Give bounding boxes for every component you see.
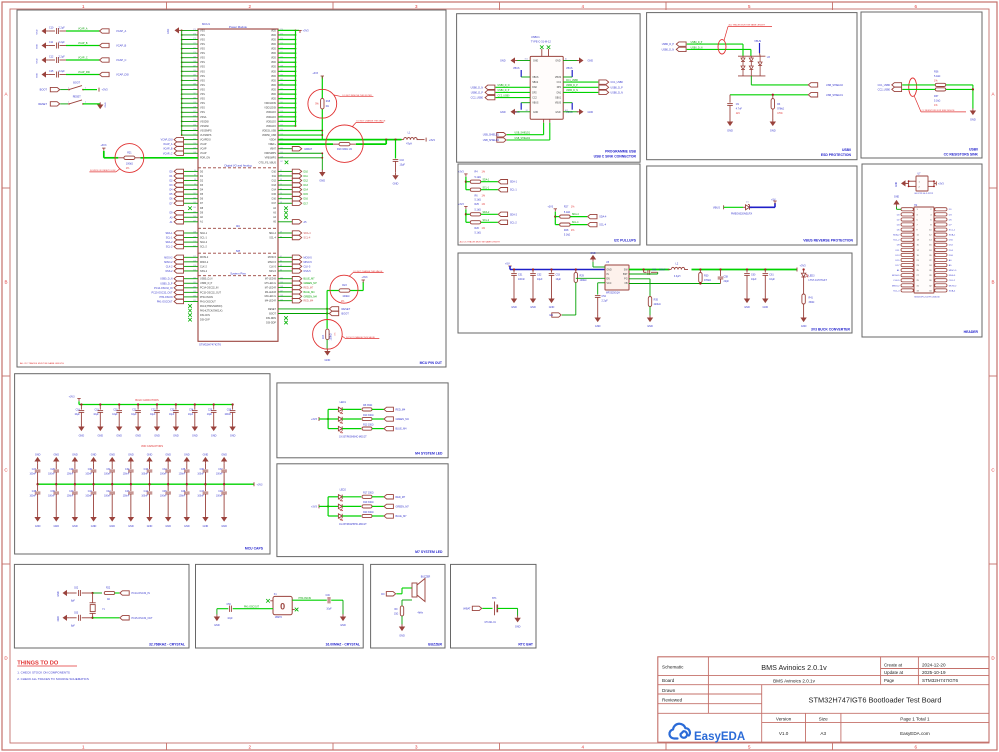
section box USB0 CC RESISTORS SINK [861, 12, 982, 158]
svg-text:VDD: VDD [271, 38, 276, 41]
svg-text:USB_SHIELD1: USB_SHIELD1 [515, 133, 531, 135]
svg-text:BOOT: BOOT [269, 312, 276, 315]
svg-text:VBAT: VBAT [270, 148, 277, 151]
svg-text:GND: GND [165, 525, 171, 528]
svg-text:GND: GND [37, 73, 39, 78]
svg-text:SCL-2: SCL-2 [200, 246, 207, 249]
svg-text:5.1kΩ: 5.1kΩ [564, 234, 571, 237]
svg-text:Drawn: Drawn [662, 688, 676, 693]
section box RTC BAT [451, 564, 537, 648]
svg-text:BLUE_M7: BLUE_M7 [304, 278, 316, 281]
svg-text:System Pins: System Pins [230, 272, 246, 276]
svg-text:VDDLDO: VDDLDO [266, 120, 276, 123]
svg-text:GND: GND [109, 525, 115, 528]
wire PH1-OSCOUT [233, 608, 273, 610]
svg-text:Create at: Create at [884, 663, 903, 668]
svg-text:VBUS REVERSE PROTECTION: VBUS REVERSE PROTECTION [803, 239, 853, 243]
svg-text:+5V: +5V [771, 198, 776, 201]
svg-text:VSS: VSS [200, 93, 205, 96]
resistor R3 976k with GND [772, 95, 774, 99]
svg-text:CC1_USB0: CC1_USB0 [611, 81, 624, 84]
wire VBAT [278, 148, 292, 150]
section box 32k crystal [14, 564, 189, 648]
svg-text:VDD50_USB: VDD50_USB [262, 134, 276, 137]
svg-text:DO NOT CHANGE THIS VALUE: DO NOT CHANGE THIS VALUE [357, 120, 387, 123]
port USB_SHIELD1 esd [808, 93, 817, 97]
wire FB net [629, 283, 721, 285]
resistor R28 5.1k [560, 223, 571, 226]
ports VCAP_DSI/A/B/C [184, 139, 198, 141]
svg-text:C52: C52 [537, 273, 542, 276]
svg-text:GND: GND [325, 358, 331, 362]
capacitor C20 10µF bulk [118, 403, 120, 405]
svg-text:GND: GND [58, 591, 60, 596]
svg-text:BLUE_M4: BLUE_M4 [396, 428, 408, 431]
svg-text:SCL-2: SCL-2 [893, 240, 900, 242]
led LED1 ch3 resistor R13 port BLUE_M4 [338, 426, 342, 430]
svg-text:GND: GND [105, 102, 107, 107]
MCU section divider Digital I/O and Analog [198, 167, 278, 169]
svg-text:SCL-2: SCL-2 [510, 221, 517, 224]
svg-text:100kΩ: 100kΩ [329, 333, 332, 340]
svg-text:C11: C11 [49, 41, 54, 44]
diode D1 PMEG6020AELRX [743, 206, 746, 208]
svg-text:GND: GND [154, 434, 160, 437]
svg-text:Size: Size [819, 716, 828, 721]
svg-text:VSS: VSS [200, 66, 205, 69]
svg-text:+3V3: +3V3 [257, 483, 264, 486]
led LED3 [802, 268, 804, 270]
svg-text:100kΩ: 100kΩ [126, 162, 133, 165]
svg-text:Update at: Update at [884, 670, 904, 675]
svg-text:C23: C23 [170, 409, 175, 411]
svg-text:R17 330Ω: R17 330Ω [363, 493, 374, 495]
capacitor C39 100nF vdd row2 [55, 484, 57, 491]
svg-text:BMS Avinoics 2.0.1v: BMS Avinoics 2.0.1v [773, 678, 815, 683]
svg-text:100nF: 100nF [67, 496, 74, 498]
svg-text:VSS: VSS [200, 84, 205, 87]
power +3V3 after L1 [425, 138, 427, 142]
svg-text:10µF: 10µF [207, 414, 213, 416]
svg-text:5.1kΩ: 5.1kΩ [475, 209, 482, 212]
svg-text:VDD CAPACITORS: VDD CAPACITORS [141, 445, 163, 448]
capacitor C55 100nF bootstrap [642, 268, 644, 270]
no-connect OTG_FS_VBUS [285, 161, 289, 165]
svg-text:SBU2: SBU2 [532, 82, 539, 84]
svg-text:GREEN_M4: GREEN_M4 [396, 418, 410, 421]
svg-text:GND: GND [533, 112, 538, 114]
ground GND at MCU top-left [175, 27, 180, 33]
svg-text:10µF: 10µF [400, 164, 406, 167]
svg-text:FB: FB [625, 283, 628, 285]
svg-text:RTC BAT: RTC BAT [518, 643, 534, 647]
svg-text:SDA-2: SDA-2 [893, 234, 900, 237]
capacitor C61 10uF [764, 268, 766, 270]
svg-text:NSS-5: NSS-5 [304, 270, 312, 273]
resistor R24 100k to GND [326, 327, 328, 330]
svg-text:VCAP_C: VCAP_C [78, 56, 88, 59]
svg-text:100nF: 100nF [85, 496, 92, 498]
svg-text:GND: GND [79, 434, 85, 437]
svg-text:GND: GND [588, 111, 594, 114]
svg-text:C38: C38 [32, 491, 37, 493]
svg-text:GND: GND [763, 306, 769, 309]
svg-text:R19 330Ω 1%: R19 330Ω 1% [337, 148, 353, 151]
svg-text:GND: GND [116, 434, 122, 437]
resistor R18 0ohm [321, 98, 324, 109]
capacitor C19 10µF bulk [99, 403, 101, 405]
svg-text:X6521WV-2x17H-C60D00: X6521WV-2x17H-C60D00 [914, 296, 940, 298]
svg-text:C43: C43 [125, 491, 130, 493]
power +5V reverse prot [773, 200, 776, 202]
capacitor C46 100nF vdd row2 [186, 484, 188, 491]
red note CC [914, 96, 921, 112]
svg-text:GREEN_M4: GREEN_M4 [304, 295, 318, 298]
svg-text:VCAP: VCAP [200, 152, 207, 155]
svg-text:VSS: VSS [200, 88, 205, 91]
svg-text:IN: IN [607, 274, 610, 276]
svg-text:100nF: 100nF [216, 496, 223, 498]
svg-text:VSS: VSS [200, 34, 205, 37]
svg-text:C30: C30 [88, 469, 93, 471]
svg-text:GND: GND [91, 525, 97, 528]
inductor L2 3.3uH [670, 267, 691, 273]
svg-text:GND: GND [203, 453, 209, 456]
wire VSS bus [181, 30, 183, 135]
svg-text:VDD: VDD [271, 57, 276, 60]
svg-text:SDA-4: SDA-4 [599, 216, 607, 219]
svg-text:C53: C53 [556, 273, 561, 276]
svg-text:CLK-2: CLK-2 [200, 265, 207, 268]
svg-text:RESET: RESET [268, 308, 277, 311]
section box MCU CAPS [15, 374, 270, 554]
svg-text:GND: GND [128, 453, 134, 456]
wire SDA-2 [481, 213, 498, 215]
wire VDDSMPS to GND [278, 152, 322, 154]
svg-text:BLUE_M7: BLUE_M7 [396, 515, 408, 518]
svg-text:D11: D11 [272, 175, 277, 178]
svg-text:DO NOT CHANGE THIS VALUE: DO NOT CHANGE THIS VALUE [354, 270, 384, 273]
svg-text:100nF: 100nF [197, 474, 204, 476]
svg-text:M4-LED-R: M4-LED-R [265, 300, 277, 303]
power +3V3 at R23 [362, 279, 365, 281]
svg-text:VDD: VDD [271, 43, 276, 46]
MCU pin D8 no-connect [188, 206, 192, 210]
svg-text:5.1kΩ: 5.1kΩ [934, 75, 941, 78]
svg-text:C31: C31 [106, 469, 111, 471]
svg-text:3.3µH: 3.3µH [674, 275, 681, 278]
svg-text:D17: D17 [272, 202, 277, 205]
svg-text:GREEN_M7: GREEN_M7 [304, 282, 318, 285]
svg-text:100nF: 100nF [141, 474, 148, 476]
svg-text:R25: R25 [475, 203, 480, 206]
svg-text:R30: R30 [704, 275, 709, 278]
wire USB_SHIELD1 net [773, 94, 808, 96]
svg-text:SDA-1: SDA-1 [483, 178, 490, 181]
svg-text:GND: GND [500, 111, 506, 114]
svg-text:GND: GND [555, 112, 560, 114]
svg-text:2025-10-19: 2025-10-19 [922, 670, 946, 675]
svg-text:VSS: VSS [200, 70, 205, 73]
svg-text:C36: C36 [200, 469, 205, 471]
svg-text:RESET: RESET [342, 307, 351, 311]
wire R23 net [327, 290, 339, 292]
svg-text:VSS: VSS [200, 75, 205, 78]
svg-text:M7-LED-G: M7-LED-G [265, 282, 277, 285]
wire VDDA rail [278, 139, 386, 141]
svg-text:USB C SINK CONNECTOR: USB C SINK CONNECTOR [594, 155, 637, 159]
svg-text:VSS: VSS [200, 38, 205, 41]
svg-text:MCU CAPS: MCU CAPS [245, 547, 264, 551]
port PC14-OSC32_IN [120, 591, 129, 595]
H2 pin1 to GND [897, 208, 902, 210]
wire PDR_ON net [103, 151, 105, 158]
svg-text:100nF: 100nF [123, 474, 130, 476]
svg-text:SCL-4: SCL-4 [572, 222, 579, 224]
power +3V3 i2c group1 [464, 173, 467, 175]
svg-text:+3V3: +3V3 [303, 28, 310, 32]
svg-text:SDA-2: SDA-2 [200, 241, 208, 244]
svg-text:PH1-OSCOUT: PH1-OSCOUT [244, 607, 260, 609]
svg-text:5.1kΩ: 5.1kΩ [564, 211, 571, 214]
svg-text:+3V3: +3V3 [311, 418, 318, 421]
svg-text:BMS Avinoics 2.0.1v: BMS Avinoics 2.0.1v [761, 663, 827, 672]
svg-text:VREF+: VREF+ [268, 143, 276, 146]
svg-text:D10: D10 [272, 170, 277, 173]
power +3V3 at R21 [102, 147, 105, 149]
wires usb data to U3 [687, 43, 743, 45]
svg-text:MOSI-2: MOSI-2 [200, 256, 209, 259]
svg-text:GND: GND [167, 28, 170, 34]
svg-text:VDD: VDD [271, 79, 276, 82]
svg-text:GND: GND [500, 60, 506, 63]
svg-text:R35: R35 [654, 299, 659, 302]
svg-text:+3V3: +3V3 [458, 203, 464, 206]
ports USB0_D_P USB0_D_N esd [676, 42, 686, 46]
svg-text:MOSI-5: MOSI-5 [304, 256, 313, 259]
svg-text:GND: GND [595, 325, 601, 328]
svg-text:VDDLDO: VDDLDO [266, 116, 276, 119]
port SDA-1 [498, 180, 507, 184]
svg-text:GND: GND [230, 434, 236, 437]
svg-text:2.2µF: 2.2µF [59, 55, 66, 58]
svg-text:R29: R29 [580, 274, 585, 277]
svg-text:VDD: VDD [271, 48, 276, 51]
svg-text:BOOT: BOOT [73, 81, 80, 84]
svg-text:RESET: RESET [38, 102, 47, 106]
svg-text:STM32H747IGT6 Bootloader Test: STM32H747IGT6 Bootloader Test Board [809, 695, 942, 704]
svg-text:A3: A3 [820, 731, 826, 736]
svg-text:MISO-2: MISO-2 [892, 285, 900, 287]
svg-text:A: A [991, 92, 994, 97]
svg-text:GND: GND [801, 325, 807, 328]
USBC1 left ports USB0_D_N USB0_D_P CC2_USB0 [485, 85, 495, 89]
wire SW output rail [629, 269, 797, 271]
svg-text:4.7nF: 4.7nF [736, 108, 743, 111]
svg-text:100nF: 100nF [85, 474, 92, 476]
svg-text:VCC: VCC [607, 283, 612, 285]
svg-text:R13 330Ω: R13 330Ω [363, 424, 374, 426]
svg-text:+3V3: +3V3 [312, 72, 318, 75]
svg-text:VSS: VSS [200, 102, 205, 105]
svg-text:R27: R27 [564, 205, 569, 208]
svg-text:GND: GND [588, 60, 594, 63]
svg-text:GND: GND [647, 325, 653, 328]
svg-text:D12: D12 [272, 179, 277, 182]
svg-text:100nF: 100nF [179, 496, 186, 498]
resistor R19 330 [339, 142, 350, 145]
svg-text:Board: Board [662, 678, 675, 683]
svg-text:M7-LED-B: M7-LED-B [265, 278, 277, 281]
svg-text:C42: C42 [106, 491, 111, 493]
svg-text:USB0_D_P: USB0_D_P [691, 42, 703, 44]
svg-text:GND: GND [515, 626, 521, 629]
svg-text:C25: C25 [208, 409, 213, 411]
svg-text:VABAT: VABAT [463, 607, 471, 610]
svg-text:GND: GND [165, 453, 171, 456]
crystal Y1 32.768kHz [92, 593, 94, 603]
svg-text:Power Module: Power Module [229, 25, 247, 29]
svg-text:R36: R36 [934, 71, 939, 74]
wire EN net [576, 277, 605, 279]
connector USBC1 body [530, 56, 563, 119]
svg-text:100nF: 100nF [179, 474, 186, 476]
capacitor C60 10uF [746, 268, 748, 270]
wire PH0-OSCIN [292, 599, 327, 601]
svg-text:GND: GND [35, 453, 41, 456]
svg-text:EN: EN [607, 279, 611, 281]
svg-text:PH1-OSCOUT: PH1-OSCOUT [200, 300, 216, 303]
svg-text:5.1kΩ: 5.1kΩ [475, 199, 482, 202]
svg-text:LED1: LED1 [340, 401, 347, 404]
svg-text:VBUS: VBUS [513, 67, 520, 70]
svg-text:MISO-5: MISO-5 [268, 261, 277, 264]
svg-text:EN: EN [550, 314, 554, 317]
capacitor C25 10µF bulk [213, 403, 215, 405]
ground GND rtc [517, 608, 519, 615]
svg-text:VDD: VDD [271, 84, 276, 87]
svg-text:C55: C55 [652, 269, 657, 271]
svg-text:C61: C61 [769, 273, 774, 276]
svg-text:VCAP_B: VCAP_B [163, 148, 173, 151]
svg-text:VDD: VDD [271, 70, 276, 73]
svg-text:CC2_USB0: CC2_USB0 [878, 88, 891, 91]
svg-text:8pF: 8pF [71, 625, 76, 627]
svg-text:5.1kΩ: 5.1kΩ [934, 99, 941, 102]
led LED2 ch1 resistor R17 port RED_M7 [338, 495, 342, 499]
resistor R29 100k [575, 268, 577, 270]
svg-text:V1.0: V1.0 [779, 731, 789, 736]
svg-text:MOSI-5: MOSI-5 [892, 275, 900, 277]
port PC15-OSC32_OUT [120, 616, 129, 620]
svg-text:C20: C20 [113, 409, 118, 411]
svg-text:GND: GND [72, 525, 78, 528]
svg-text:SDA-1: SDA-1 [949, 234, 956, 237]
svg-text:SDA-4: SDA-4 [572, 213, 579, 216]
svg-text:C29: C29 [69, 469, 74, 471]
svg-text:D12: D12 [304, 180, 309, 183]
svg-text:Version: Version [776, 716, 792, 721]
svg-text:+3V3: +3V3 [458, 171, 464, 174]
USBC1 right ports CC1_USB0 USB0_D_P USB0_D_N [599, 80, 609, 84]
USBC1 shield wires [543, 119, 545, 123]
svg-text:B: B [991, 280, 994, 285]
svg-text:GND: GND [530, 306, 536, 309]
wire +5V rail blue [509, 266, 511, 270]
svg-text:BUZZER: BUZZER [428, 643, 442, 647]
svg-text:VABAT: VABAT [304, 147, 313, 151]
capacitor C58 22pF [719, 268, 721, 270]
svg-text:M7-LED-R: M7-LED-R [265, 286, 277, 289]
svg-text:MISO-2: MISO-2 [200, 261, 209, 264]
svg-text:VSS: VSS [200, 57, 205, 60]
svg-text:C18: C18 [76, 409, 81, 411]
svg-text:PA14(JTCK/SWCLK): PA14(JTCK/SWCLK) [200, 309, 223, 312]
svg-text:DSI-CKN: DSI-CKN [200, 314, 210, 317]
svg-text:SCL-1: SCL-1 [949, 229, 956, 231]
svg-text:MOSI-2: MOSI-2 [164, 256, 173, 259]
svg-text:B1: B1 [526, 110, 528, 112]
section box USB0 ESD PROTECTION [647, 13, 857, 160]
svg-text:GREEN_M7: GREEN_M7 [396, 505, 410, 508]
resistor R6 5.1k [470, 188, 481, 191]
svg-text:C10: C10 [49, 26, 54, 29]
svg-text:LED3: LED3 [809, 275, 816, 278]
power +3V3 buck out [796, 268, 798, 272]
svg-text:VSSDSI: VSSDSI [200, 125, 209, 128]
svg-text:VSS: VSS [200, 98, 205, 101]
svg-text:MISO-5: MISO-5 [949, 270, 957, 272]
svg-text:USB0_D_N: USB0_D_N [691, 47, 703, 49]
svg-text:GND: GND [727, 129, 733, 133]
svg-text:VDD: VDD [271, 66, 276, 69]
svg-text:VSSSMPS: VSSSMPS [200, 129, 212, 132]
svg-text:8pF: 8pF [71, 601, 76, 603]
svg-text:100kΩ: 100kΩ [580, 279, 587, 282]
svg-text:10µF: 10µF [75, 414, 81, 416]
svg-text:RED_M4: RED_M4 [396, 408, 406, 411]
USBC1 top shell pins no-connect [541, 49, 543, 56]
svg-text:USB0_D_P: USB0_D_P [566, 85, 578, 87]
svg-text:GND: GND [35, 525, 41, 528]
capacitor C47 100nF vdd row2 [204, 484, 206, 491]
svg-text:100nF: 100nF [141, 496, 148, 498]
title block grid [658, 657, 989, 742]
svg-text:10µF: 10µF [131, 414, 137, 416]
capacitor C53 10uF [550, 268, 552, 270]
svg-text:VBUS: VBUS [713, 205, 720, 209]
svg-text:VDDLDO: VDDLDO [266, 125, 276, 128]
svg-text:VCAP_C: VCAP_C [116, 58, 127, 62]
svg-text:USBC1: USBC1 [531, 35, 540, 39]
svg-text:PH1-OSCOUT: PH1-OSCOUT [157, 300, 173, 303]
svg-text:Page: Page [884, 678, 895, 683]
wire SCL-1 [481, 189, 498, 191]
port USB_SHIELD2 esd [808, 83, 817, 87]
capacitor C23 10µF bulk [175, 403, 177, 405]
frame ruler ticks and labels [166, 2, 168, 10]
svg-text:SCL-1: SCL-1 [200, 236, 207, 239]
svg-text:PC15-OSC32_OUT: PC15-OSC32_OUT [152, 291, 174, 294]
svg-text:220kΩ: 220kΩ [654, 303, 661, 306]
svg-text:GND: GND [37, 58, 39, 63]
svg-text:VDD: VDD [271, 98, 276, 101]
svg-text:C58: C58 [724, 275, 729, 278]
port VABAT at MCU [292, 147, 301, 151]
svg-text:C16: C16 [400, 159, 405, 162]
red note near R19 [352, 123, 356, 128]
USBC1 VBUS stubs top [520, 70, 522, 77]
